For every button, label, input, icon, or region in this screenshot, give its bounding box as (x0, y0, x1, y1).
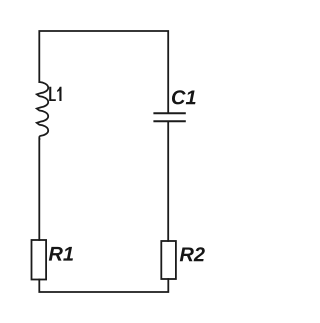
wire top (39, 31, 168, 112)
resistor R2 (161, 241, 176, 279)
inductor L1 (37, 82, 48, 139)
label L1 (49, 87, 61, 101)
wire bottom (39, 279, 168, 292)
wire right (C1 to R2) (167, 122, 169, 241)
label R1 (49, 247, 73, 261)
capacitor C1 (154, 113, 184, 121)
label R2 (180, 247, 205, 261)
wire left (inductor to R1) (38, 139, 40, 240)
resistor R1 (32, 240, 47, 280)
label C1 (172, 90, 196, 104)
